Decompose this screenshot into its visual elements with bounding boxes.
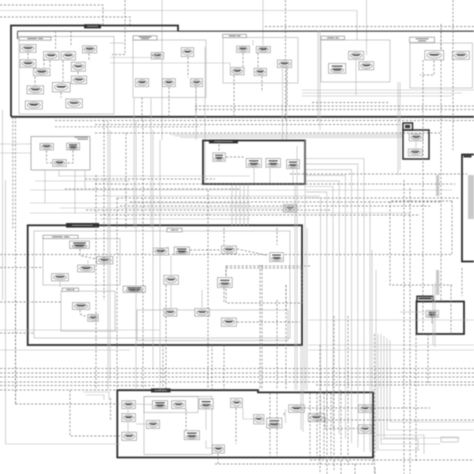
wire W122 xyxy=(100,218,250,220)
wire W136 xyxy=(109,130,111,380)
wire W54 xyxy=(95,124,400,126)
wire W153 xyxy=(0,301,62,303)
wire W120 xyxy=(60,207,300,209)
wire W2 xyxy=(0,17,130,26)
wire W67 xyxy=(415,142,417,149)
component F body xyxy=(403,130,429,159)
wire W154 xyxy=(0,332,33,334)
node N60 xyxy=(122,414,136,422)
wire W49 xyxy=(355,60,357,95)
wire W139 xyxy=(150,98,152,228)
wire W188 xyxy=(371,250,373,452)
wire W81 xyxy=(170,256,172,275)
wire W228 xyxy=(380,439,418,450)
wire W116 xyxy=(35,180,130,182)
wire W191 xyxy=(409,188,411,474)
wire W133 xyxy=(74,170,76,213)
node N43 xyxy=(174,247,189,255)
subcluster header SB5 xyxy=(410,37,435,42)
wire W167 xyxy=(211,345,213,390)
wire W64 xyxy=(269,168,271,183)
wire W62 xyxy=(226,157,243,158)
wire W123 xyxy=(85,178,215,180)
cluster E frame xyxy=(117,390,373,457)
node N2 xyxy=(44,52,59,60)
wire W192 xyxy=(415,330,417,462)
wire W206 xyxy=(384,336,460,438)
wire W58 xyxy=(67,151,73,164)
wire W87 xyxy=(259,265,261,390)
node N14 xyxy=(181,48,193,57)
wire W202 xyxy=(374,334,376,474)
subcluster SB2 body xyxy=(133,40,206,98)
wire W125 xyxy=(65,188,240,190)
node N18 xyxy=(237,46,250,52)
cluster M frame xyxy=(203,141,305,185)
wire W174 xyxy=(306,175,345,438)
wire W151 xyxy=(110,398,112,420)
node N13 xyxy=(151,53,163,59)
wire W104 xyxy=(217,454,219,464)
wire W79 xyxy=(223,228,225,245)
node N20 xyxy=(277,60,291,68)
subcluster header SB1 xyxy=(19,37,51,40)
cluster K label xyxy=(75,137,89,138)
wire W168 xyxy=(223,345,225,390)
wire W129 xyxy=(86,209,330,211)
node N5 xyxy=(20,60,36,68)
wire W169 xyxy=(276,300,278,390)
node N46 xyxy=(164,275,179,284)
subcluster DS3 body xyxy=(61,291,115,331)
node N23 xyxy=(349,51,364,59)
wire W140 xyxy=(152,130,154,370)
wire W89 xyxy=(422,302,424,335)
wire W98 xyxy=(206,440,212,448)
wire W196 xyxy=(461,268,463,296)
wire W13 xyxy=(55,31,57,50)
wire W90 xyxy=(450,285,452,334)
wire W10 xyxy=(175,135,403,137)
wire W124 xyxy=(95,183,455,185)
wire W93 xyxy=(136,423,146,425)
wire W126 xyxy=(117,197,460,199)
wire W131 xyxy=(44,170,46,203)
wire W88 xyxy=(261,265,263,390)
wire W134 xyxy=(84,170,86,190)
wire W148 xyxy=(15,117,17,404)
wire W74 xyxy=(152,247,169,252)
node N48 xyxy=(123,286,145,292)
wire W29 xyxy=(88,54,90,62)
wire W209 xyxy=(370,407,430,409)
node N11 xyxy=(66,99,83,108)
wire W119 xyxy=(30,202,250,204)
node N38 xyxy=(70,241,90,248)
cluster label E xyxy=(151,388,171,392)
wire W55 xyxy=(55,126,200,128)
wire W110 xyxy=(323,393,325,456)
node N33 xyxy=(266,158,281,167)
node N32 xyxy=(246,158,261,167)
wire W197 xyxy=(326,390,328,474)
wire W33 xyxy=(168,87,170,117)
wire W103 xyxy=(235,408,237,444)
subcluster DS5 dashed box xyxy=(226,268,302,303)
node N61 xyxy=(147,420,160,428)
wire W175 xyxy=(306,181,339,434)
cluster label D xyxy=(66,223,99,228)
wire W218 xyxy=(0,376,474,378)
wire W40 xyxy=(195,82,197,140)
node N70 xyxy=(359,425,372,434)
wire W82 xyxy=(223,288,225,303)
wire W138 xyxy=(135,120,137,390)
wire W211 xyxy=(316,419,474,421)
wire W149 xyxy=(15,300,17,404)
wire W229 xyxy=(84,392,110,400)
wire W128 xyxy=(120,205,430,207)
wire W223 xyxy=(2,110,4,300)
node N67 xyxy=(289,405,305,413)
wire W230 xyxy=(86,395,104,400)
wire W176 xyxy=(306,187,333,430)
node N34 xyxy=(287,160,300,169)
wire W226 xyxy=(374,468,376,474)
wire W3 xyxy=(0,11,357,41)
wire W27 xyxy=(440,24,442,50)
node N26 xyxy=(425,51,444,60)
wire W41 xyxy=(204,47,206,185)
wire W185 xyxy=(0,349,130,351)
wire W53 xyxy=(55,120,474,122)
node N66 xyxy=(267,418,282,428)
subcluster header SB2 xyxy=(133,36,157,40)
wire W111 xyxy=(330,393,332,456)
component F tab xyxy=(403,123,413,130)
wire W100 xyxy=(285,409,287,423)
wire W189 xyxy=(375,270,377,452)
cluster H title xyxy=(464,156,472,158)
wire W201 xyxy=(319,345,321,474)
wire W85 xyxy=(201,290,203,308)
cluster H gray block xyxy=(468,175,474,219)
wire W170 xyxy=(285,285,287,390)
wire W112 xyxy=(432,285,434,345)
wire W137 xyxy=(133,98,135,228)
wire W57 xyxy=(47,151,53,163)
node N49 xyxy=(73,303,90,310)
node N3 xyxy=(61,52,75,60)
wire W9 xyxy=(170,134,403,136)
subcluster SB5 body xyxy=(410,43,473,88)
wire W181 xyxy=(302,95,452,97)
subcluster header SB4 xyxy=(321,36,345,39)
node N22 xyxy=(254,68,266,75)
wire W160 xyxy=(294,184,296,390)
wire W59 xyxy=(0,143,31,145)
wire W48 xyxy=(399,82,401,170)
wire W20 xyxy=(141,98,143,121)
folder G tab xyxy=(417,296,433,301)
node N54 xyxy=(426,311,438,318)
folder G tab text xyxy=(419,298,432,300)
wire W97 xyxy=(205,410,207,431)
wire W117 xyxy=(30,189,452,191)
wire W152 xyxy=(0,267,43,269)
node N39 xyxy=(97,257,113,264)
wire W130 xyxy=(100,214,420,216)
wire W46 xyxy=(319,31,321,130)
node N7 xyxy=(71,62,85,71)
node N27 xyxy=(453,51,470,59)
node N57 xyxy=(172,401,186,409)
wire W101 xyxy=(304,407,358,409)
node N40 xyxy=(78,265,95,272)
wire W1 xyxy=(0,5,103,26)
wire W18 xyxy=(60,93,62,98)
node N37 xyxy=(408,149,422,156)
wire W22 xyxy=(187,57,189,77)
node N12 xyxy=(25,101,42,109)
wire W4 xyxy=(366,0,368,55)
wire W102 xyxy=(325,417,358,429)
node N10 xyxy=(27,86,44,94)
wire W210 xyxy=(316,384,474,386)
wire W145 xyxy=(125,133,127,228)
wire W172 xyxy=(306,164,358,447)
wire W135 xyxy=(107,120,109,390)
wire W224 xyxy=(215,458,373,464)
wire W178 xyxy=(306,198,321,421)
wire W56 xyxy=(95,132,440,134)
wire W39 xyxy=(110,63,230,67)
node N52 xyxy=(195,309,210,317)
wire W109 xyxy=(316,393,318,456)
wire W157 xyxy=(239,185,241,226)
node N35 xyxy=(284,205,297,212)
node N50 xyxy=(88,315,98,322)
wire W227 xyxy=(376,435,424,454)
wire W43 xyxy=(282,68,284,140)
wire W21 xyxy=(151,54,158,56)
subcluster header DS1 xyxy=(43,235,78,238)
wire W24 xyxy=(257,53,259,67)
wire W65 xyxy=(292,170,294,184)
cluster B top border xyxy=(178,30,474,32)
node N59 xyxy=(231,398,243,407)
subcluster ES2 body xyxy=(144,397,212,455)
node N8 xyxy=(71,76,86,84)
wire W177 xyxy=(306,192,327,425)
wire W26 xyxy=(286,68,288,105)
subcluster SB4 body xyxy=(321,40,390,82)
wire W91 xyxy=(400,311,425,313)
wire W60 xyxy=(0,152,31,154)
wire W72 xyxy=(59,282,61,288)
node N29 xyxy=(67,143,80,150)
wire W203 xyxy=(427,334,429,385)
wire W115 xyxy=(58,175,250,177)
subcluster D2 body xyxy=(34,231,290,338)
node N31 xyxy=(213,153,226,161)
wire W108 xyxy=(309,393,311,456)
node N16 xyxy=(163,79,176,87)
wire W161 xyxy=(296,184,298,390)
node N28 xyxy=(40,144,53,150)
wire W11 xyxy=(180,137,403,139)
node N24 xyxy=(359,62,374,70)
wire W216 xyxy=(0,368,474,370)
wire W94 xyxy=(127,409,129,413)
subcluster DS4 body xyxy=(137,310,288,341)
wire W208 xyxy=(390,340,474,422)
wire W114 xyxy=(431,317,433,325)
wire W187 xyxy=(369,200,371,452)
node N36 xyxy=(409,134,423,141)
cluster label M xyxy=(209,140,238,144)
wire W132 xyxy=(58,170,60,176)
wire W99 xyxy=(243,408,253,419)
wire W42 xyxy=(252,40,254,46)
wire W95 xyxy=(127,422,129,431)
wire W213 xyxy=(0,385,155,387)
node N17 xyxy=(191,79,203,87)
wire W84 xyxy=(170,285,172,308)
wire W222 xyxy=(6,180,121,444)
node N55 xyxy=(122,401,136,409)
folder G body xyxy=(417,302,465,335)
node N30 xyxy=(53,160,67,167)
wire W147 xyxy=(12,117,14,230)
wire W214 xyxy=(165,285,167,390)
wire W38 xyxy=(110,57,152,59)
wire W142 xyxy=(95,175,97,390)
wire W164 xyxy=(304,140,306,390)
node N58 xyxy=(199,399,213,409)
node N4 xyxy=(83,46,97,53)
node N62 xyxy=(122,432,137,440)
node N53 xyxy=(221,318,236,326)
subcluster header DS3 xyxy=(62,288,79,291)
wire W166 xyxy=(207,190,209,390)
node N19 xyxy=(256,46,270,52)
wire W75 xyxy=(190,249,221,251)
wire W215 xyxy=(162,345,164,390)
cluster B bottom border xyxy=(11,116,474,118)
node N25 xyxy=(329,63,346,73)
cluster A frame xyxy=(11,26,178,117)
node N15 xyxy=(135,79,148,87)
wire W35 xyxy=(233,75,235,116)
wire W51 xyxy=(195,105,474,107)
node N1 xyxy=(20,45,36,53)
wire W6 xyxy=(285,0,287,120)
wire W28 xyxy=(420,61,434,76)
wire W143 xyxy=(103,120,105,300)
wire W106 xyxy=(269,393,271,456)
wire W23 xyxy=(242,53,244,67)
wire W47 xyxy=(397,82,399,175)
wire W80 xyxy=(276,228,278,245)
wire W183 xyxy=(0,329,160,331)
wire W144 xyxy=(116,198,118,390)
gray box bottom right xyxy=(441,437,458,442)
wire W146 xyxy=(142,120,144,390)
wire W141 xyxy=(159,140,161,390)
wire W7 xyxy=(161,0,163,140)
wire W220 xyxy=(0,389,117,391)
wire W34 xyxy=(195,87,197,117)
wire W159 xyxy=(247,185,249,226)
wire W179 xyxy=(302,89,474,91)
wire W163 xyxy=(302,345,304,432)
node N45 xyxy=(270,253,284,262)
cluster B left stub xyxy=(18,31,179,39)
wire W190 xyxy=(403,180,405,474)
wire W105 xyxy=(283,413,285,417)
wire W83 xyxy=(285,285,287,310)
wire W200 xyxy=(347,316,349,465)
wire W198 xyxy=(333,316,335,470)
wire W199 xyxy=(340,390,342,474)
node N44 xyxy=(222,246,237,254)
node N9 xyxy=(52,83,70,92)
node N41 xyxy=(52,274,69,281)
subcluster ES1 body xyxy=(144,397,198,413)
wire W17 xyxy=(77,72,79,75)
wire W212 xyxy=(310,459,474,461)
subcluster SB3 body xyxy=(223,38,298,84)
node N64 xyxy=(212,445,224,453)
wire W150 xyxy=(16,403,121,405)
node N51 xyxy=(164,309,177,317)
gray band near H xyxy=(436,175,439,196)
wire W194 xyxy=(440,60,442,300)
wire W165 xyxy=(306,228,308,390)
wire W195 xyxy=(452,0,454,150)
wire W63 xyxy=(253,168,255,183)
subcluster header D2 xyxy=(167,228,182,232)
wire W73 xyxy=(80,310,87,317)
wire W193 xyxy=(422,60,424,296)
wire W70 xyxy=(80,249,96,259)
wire W156 xyxy=(235,185,237,226)
subcluster header SB3 xyxy=(223,34,247,37)
wire W14 xyxy=(70,31,72,45)
wire W225 xyxy=(354,464,356,474)
wire W68 xyxy=(390,201,452,285)
wire W8 xyxy=(262,0,264,45)
wire W186 xyxy=(308,349,474,351)
wire W50 xyxy=(312,102,390,104)
wire W61 xyxy=(218,141,220,153)
wire W118 xyxy=(95,195,320,197)
wire W204 xyxy=(378,334,420,450)
cluster H frame xyxy=(462,155,474,262)
wire W158 xyxy=(243,185,245,226)
wire W76 xyxy=(237,249,266,255)
wire W219 xyxy=(0,381,474,383)
wire W155 xyxy=(231,185,233,226)
cluster D frame xyxy=(28,225,302,345)
wire W25 xyxy=(261,76,263,92)
wire W71 xyxy=(87,260,89,264)
wire W15 xyxy=(27,53,29,59)
cluster label A xyxy=(84,24,101,28)
wire W184 xyxy=(308,344,474,346)
node N56 xyxy=(153,401,168,409)
